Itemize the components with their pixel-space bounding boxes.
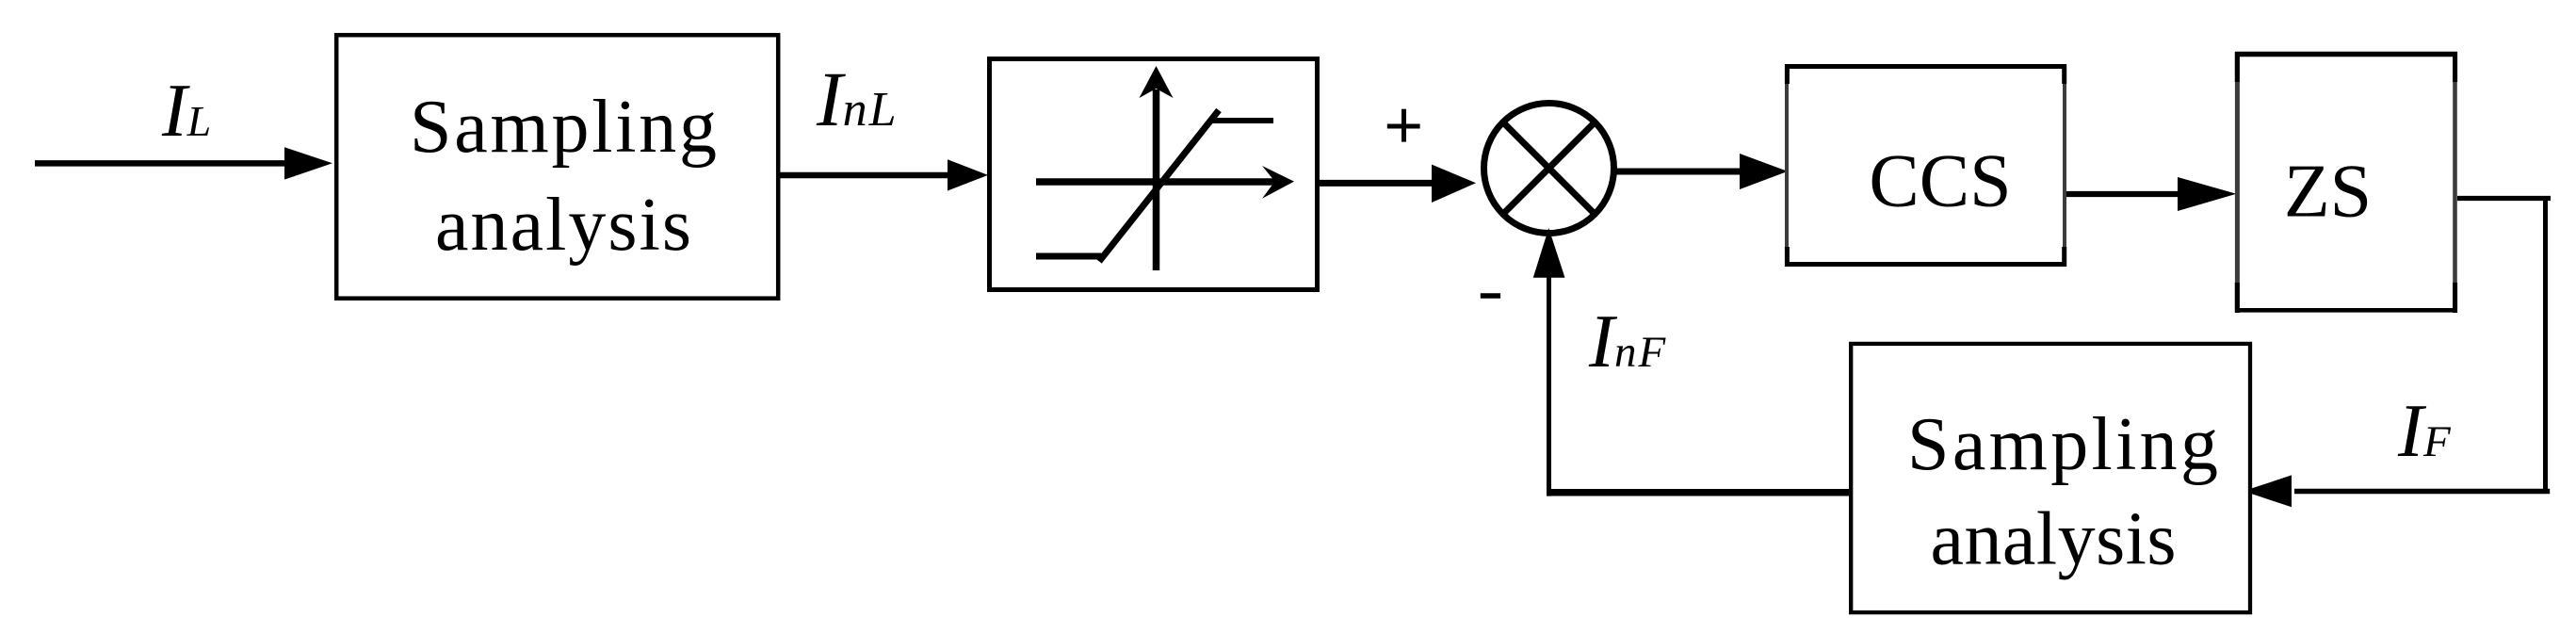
svg-text:ZS: ZS: [2284, 151, 2372, 234]
summing junction circle: [1484, 104, 1614, 234]
block: ZS: [2235, 52, 2457, 313]
wire feedback vertical with up arrowhead into summing junction: [1533, 228, 1565, 496]
wire summing junction to CCS with arrowhead: [1611, 154, 1788, 189]
svg-text:Sampling: Sampling: [1907, 403, 2218, 486]
wire IL input with arrowhead: [35, 147, 332, 179]
horizontal axis stealth arrowhead: [1262, 166, 1294, 199]
label plus sign: [1387, 109, 1420, 142]
summing junction X diagonal 2: [1503, 122, 1596, 215]
label minus sign: [1481, 293, 1500, 299]
wire saturation to summing junction with arrowhead: [1318, 165, 1476, 203]
vertical axis: [1153, 89, 1160, 270]
wire CCS to ZS with arrowhead: [2066, 177, 2236, 211]
wire InL with arrowhead: [778, 159, 988, 190]
summing junction X diagonal 1: [1503, 122, 1596, 215]
saturation curve upper horizontal: [1212, 118, 1273, 123]
block: Sampling analysis (input): [336, 35, 778, 299]
block: CCS: [1785, 64, 2066, 267]
block: Sampling analysis (feedback): [1851, 344, 2250, 612]
wire ZS output: right, down, left: [2244, 196, 2551, 507]
vertical axis stealth arrowhead: [1140, 66, 1174, 98]
svg-text:Sampling: Sampling: [410, 86, 717, 169]
saturation curve diagonal: [1099, 110, 1219, 262]
saturation curve lower horizontal: [1036, 253, 1101, 260]
block: saturation limiter: [990, 59, 1318, 290]
svg-text:analysis: analysis: [1931, 498, 2177, 581]
wire feedback horizontal thick segment: [1551, 489, 1849, 496]
svg-text:CCS: CCS: [1869, 140, 2011, 223]
horizontal axis: [1036, 178, 1277, 186]
svg-text:analysis: analysis: [435, 184, 691, 267]
